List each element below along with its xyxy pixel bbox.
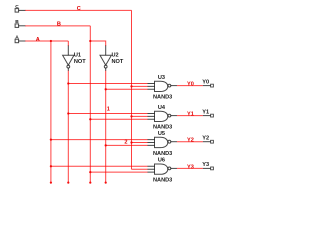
pin Y2 stub: [203, 141, 211, 143]
junction C to U4: [130, 115, 132, 117]
junction C to U5: [130, 141, 132, 143]
svg-text:Y0: Y0: [187, 82, 194, 88]
svg-text:Y2: Y2: [187, 138, 194, 144]
junction NOTB to U5: [105, 144, 107, 146]
svg-text:A: A: [36, 37, 40, 43]
pin C stub: [19, 9, 26, 11]
svg-text:U3: U3: [158, 75, 165, 81]
junction A to U5: [50, 138, 52, 140]
U3 bubble: [168, 84, 171, 87]
junction dots: [50, 40, 133, 184]
svg-text:U5: U5: [158, 131, 165, 137]
svg-text:Y0: Y0: [202, 79, 209, 85]
wire net NOTA bus (U1 output): [67, 71, 69, 183]
svg-text:NAND3: NAND3: [153, 125, 172, 131]
U4 output stub: [171, 115, 177, 117]
U4 body: [155, 111, 168, 121]
svg-text:NAND3: NAND3: [153, 151, 172, 157]
wire U3 input3 from NOTB: [106, 88, 148, 90]
junction NOTA to U4: [67, 112, 69, 114]
svg-text:Y3: Y3: [187, 164, 194, 170]
svg-text:A: A: [15, 35, 19, 41]
U6 body: [155, 164, 168, 174]
svg-text:Y2: Y2: [202, 136, 209, 142]
pin B stub: [19, 25, 26, 27]
U4 input stubs: [148, 114, 155, 120]
U1 triangle: [63, 55, 74, 65]
wire U3 input2 from C: [132, 85, 148, 87]
wire end dot NOTB bus: [105, 182, 107, 184]
wire end dot B bus: [89, 182, 91, 184]
svg-text:C: C: [15, 4, 19, 10]
U6 output stub: [171, 167, 177, 169]
svg-text:2: 2: [124, 139, 127, 145]
pin B square: [15, 24, 19, 28]
svg-text:U6: U6: [158, 158, 165, 164]
wire U4 input1 from NOTA: [68, 113, 147, 115]
junction NOTB to U3: [105, 88, 107, 90]
wire output Y0: [177, 85, 203, 87]
U5 input stubs: [148, 140, 155, 146]
junction B to U4: [89, 118, 91, 120]
junction A to U6: [50, 165, 52, 167]
svg-text:Y1: Y1: [187, 112, 194, 118]
junction B branch: [89, 40, 91, 42]
wire U6 input3 from B: [90, 171, 147, 173]
svg-text:NOT: NOT: [112, 59, 124, 65]
junction C to U3: [130, 85, 132, 87]
pin C square: [15, 9, 19, 13]
wire output Y1: [177, 115, 203, 117]
wire U6 input2 from C: [132, 168, 148, 170]
wire net B vertical bus: [89, 26, 91, 183]
svg-text:Y1: Y1: [202, 109, 209, 115]
U3 input stubs: [148, 84, 155, 90]
U1 bubble: [67, 65, 70, 68]
svg-text:B: B: [15, 19, 19, 25]
wire U5 input1 from A: [51, 139, 148, 141]
U2 bubble: [104, 65, 107, 68]
svg-text:NAND3: NAND3: [153, 178, 172, 184]
wire end dot NOTA bus: [67, 182, 69, 184]
svg-text:C: C: [77, 6, 81, 12]
junction NOTA to U3: [67, 82, 69, 84]
svg-text:Y3: Y3: [202, 162, 209, 168]
wire output Y3: [177, 167, 203, 169]
svg-text:1: 1: [107, 107, 110, 113]
pin A square: [15, 39, 19, 43]
pin Y0 square: [211, 84, 214, 87]
wire net C horizontal: [25, 9, 132, 11]
wire net NOTB bus (U2 output): [105, 71, 107, 183]
wire net B branch to U2: [90, 41, 105, 46]
U1 output pin: [67, 68, 69, 71]
pin Y0 stub: [203, 85, 211, 87]
junction B to U6: [89, 171, 91, 173]
wire output Y2: [177, 141, 203, 143]
pin Y3 stub: [203, 167, 211, 169]
wire net C vertical bus: [131, 10, 133, 169]
pin Y2 square: [211, 140, 214, 143]
wire net B horizontal: [25, 25, 90, 27]
wire net A horizontal: [25, 40, 68, 42]
wire U4 input2 from C: [132, 115, 148, 117]
svg-text:U1: U1: [74, 53, 81, 59]
U2 triangle: [100, 55, 111, 65]
pin Y1 square: [211, 114, 214, 117]
wire U3 input1 from NOTA: [68, 83, 147, 85]
svg-text:B: B: [57, 22, 61, 28]
svg-text:NAND3: NAND3: [153, 95, 172, 101]
wire U5 input3 from NOTB: [106, 144, 148, 146]
U5 bubble: [168, 140, 171, 143]
wire net A vertical bus: [50, 41, 52, 183]
wire U4 input3 from B: [90, 118, 147, 120]
U5 output stub: [171, 141, 177, 143]
svg-text:U2: U2: [112, 53, 119, 59]
wire U5 input2 from C: [132, 142, 148, 144]
U2 output pin: [105, 68, 107, 71]
U3 body: [155, 81, 168, 91]
pin A stub: [19, 40, 26, 42]
U6 bubble: [168, 167, 171, 170]
junction A-bus tap: [50, 40, 52, 42]
svg-text:U4: U4: [158, 105, 166, 111]
wire U6 input1 from A: [51, 165, 148, 167]
wire end dot A bus: [50, 182, 52, 184]
pin Y3 square: [211, 167, 214, 170]
U6 input stubs: [148, 166, 155, 172]
U4 bubble: [168, 114, 171, 117]
pin Y1 stub: [203, 115, 211, 117]
U5 body: [155, 137, 168, 147]
U3 output stub: [171, 85, 177, 87]
svg-text:NOT: NOT: [74, 59, 86, 65]
wire net A into U1: [67, 41, 69, 46]
U1 input pin: [67, 46, 69, 56]
U2 input pin: [105, 46, 107, 56]
